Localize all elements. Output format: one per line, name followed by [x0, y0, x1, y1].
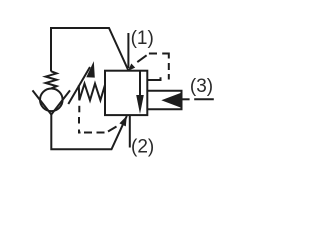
- wire bottom rail from check valve to diagonal: [51, 115, 127, 150]
- adjustment arrow through spring: [68, 67, 90, 104]
- check valve ball C1: [40, 89, 63, 112]
- svg-text:(2): (2): [131, 137, 154, 158]
- check valve seat: [33, 90, 71, 114]
- dashed drain line from spring to bottom junction: [78, 106, 80, 113]
- wire (2) port line: [129, 115, 131, 147]
- spring main (adjustable): [79, 84, 106, 101]
- svg-text:(1): (1): [131, 28, 154, 49]
- arrowhead at bottom junction: [119, 116, 126, 127]
- pilot dashed line from port1 junction to right side: [137, 55, 146, 62]
- spring of check valve: [46, 71, 57, 88]
- valve envelope square: [105, 71, 147, 115]
- dashed port 3 line: [183, 98, 190, 100]
- stub port 3 housing: [147, 91, 181, 110]
- wire top rail from check valve to valve top junction: [51, 28, 128, 72]
- arrowhead at top junction: [128, 64, 135, 71]
- wire (1) port line: [127, 33, 129, 68]
- flow arrow inside envelope: [139, 71, 141, 98]
- svg-text:(3): (3): [190, 76, 213, 97]
- pilot piston triangle port 3: [161, 93, 180, 108]
